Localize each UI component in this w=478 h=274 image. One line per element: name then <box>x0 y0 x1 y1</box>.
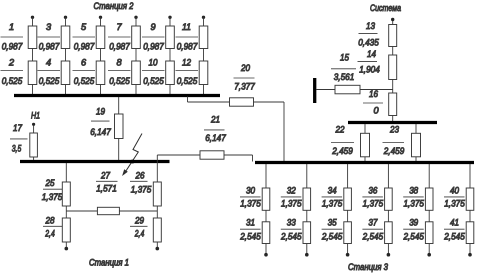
svg-text:29: 29 <box>134 216 144 226</box>
wire Station 3 bus to X30 <box>265 164 267 188</box>
label 37 / 2,545 <box>362 218 384 242</box>
load terminal below X39 <box>427 253 431 257</box>
label 36 / 1,375 <box>362 185 384 208</box>
load terminal below X41 <box>468 253 472 257</box>
wire X16 to middle bus <box>392 116 394 122</box>
wire Station 2 bus to X19 <box>118 97 120 114</box>
wire terminal to X13 <box>392 21 394 25</box>
svg-text:35: 35 <box>328 218 338 228</box>
wire X1 to X2 <box>32 49 34 62</box>
short-circuit fault arrow at Station 1 bus <box>122 134 142 177</box>
load terminal H1 <box>32 123 35 126</box>
wire X35 to terminal <box>347 244 349 254</box>
wire X8 to bus 2 <box>135 85 137 96</box>
svg-text:15: 15 <box>340 53 350 63</box>
svg-text:1,571: 1,571 <box>96 184 117 194</box>
svg-text:2,4: 2,4 <box>45 229 55 239</box>
generator terminal G5 <box>168 16 171 19</box>
reactance 10 <box>166 61 175 85</box>
wire H1 to X17 <box>33 126 35 134</box>
wire X14 to X16 (node with X15) <box>392 80 394 94</box>
svg-text:8: 8 <box>116 58 122 68</box>
wire X26 to X29 <box>156 206 158 218</box>
label 10 / 0,525 <box>142 58 165 87</box>
svg-text:31: 31 <box>246 218 255 228</box>
load terminal below X31 <box>264 253 268 257</box>
bus: vertical busbar (left terminal of X15) <box>313 78 316 103</box>
label 41 / 2,545 <box>443 218 465 242</box>
wire Station 2 bus to X20 <box>187 97 189 103</box>
label 1 / 0,987 <box>1 22 24 52</box>
svg-text:28: 28 <box>45 216 56 226</box>
wire X23 to Station 3 bus <box>415 157 417 162</box>
label 22 / 2,459 <box>331 125 354 157</box>
load terminal below X33 <box>305 253 309 257</box>
svg-text:1,375: 1,375 <box>131 185 152 195</box>
label 16 / 0 <box>363 89 383 116</box>
wire X3 to X4 <box>65 49 67 62</box>
svg-text:3: 3 <box>46 22 52 32</box>
wire X20 to Station 3 bus <box>254 101 285 103</box>
label 15 / 3,561 <box>331 53 356 83</box>
bus: Station 2 busbar <box>14 94 220 97</box>
reactance 36 <box>385 188 393 210</box>
svg-text:1,375: 1,375 <box>363 198 384 208</box>
load terminal below X35 <box>346 253 350 257</box>
svg-text:6,147: 6,147 <box>90 127 111 137</box>
svg-text:20: 20 <box>240 63 251 73</box>
svg-text:2,545: 2,545 <box>362 231 384 241</box>
reactance 3 <box>61 26 70 49</box>
wire X25 to X28 <box>65 206 67 218</box>
reactance 26 <box>153 182 161 206</box>
generator terminal G6 <box>202 16 205 19</box>
reactance 17 <box>30 133 38 157</box>
svg-text:2: 2 <box>8 58 14 68</box>
svg-text:0,987: 0,987 <box>143 42 164 52</box>
wire X36 to X37 <box>387 210 389 222</box>
svg-text:30: 30 <box>246 185 256 195</box>
label 9 / 0,987 <box>142 22 165 52</box>
reactance 31 <box>262 222 270 244</box>
label 28 / 2,4 <box>43 216 63 239</box>
wire X12 to bus 2 <box>203 85 205 96</box>
label 32 / 1,375 <box>281 185 303 208</box>
svg-text:3,5: 3,5 <box>12 144 22 154</box>
wire X33 to terminal <box>306 244 308 254</box>
wire Station 1 bus node to X21 <box>157 154 200 156</box>
system terminal <box>391 18 394 21</box>
svg-text:2,545: 2,545 <box>403 231 425 241</box>
svg-text:40: 40 <box>450 185 460 195</box>
svg-text:39: 39 <box>409 218 418 228</box>
label 13 / 0,435 <box>358 21 379 48</box>
svg-text:5: 5 <box>81 22 87 32</box>
label 17 / 3,5 <box>10 123 28 154</box>
svg-text:0,525: 0,525 <box>2 76 23 86</box>
reactance 14 <box>389 55 397 80</box>
reactance 23 <box>412 133 421 157</box>
reactance 20 <box>230 98 254 106</box>
svg-text:2,545: 2,545 <box>321 231 343 241</box>
reactance 19 <box>115 114 124 139</box>
wire X37 to terminal <box>387 244 389 254</box>
wire X38 to X39 <box>428 210 430 222</box>
reactance 22 <box>361 133 370 157</box>
svg-text:1,375: 1,375 <box>281 198 302 208</box>
wire X7 to X8 <box>135 49 137 62</box>
svg-text:2,459: 2,459 <box>383 146 404 156</box>
svg-text:17: 17 <box>13 123 23 133</box>
reactance 11 <box>199 26 208 49</box>
label 39 / 2,545 <box>403 218 425 242</box>
svg-text:0,987: 0,987 <box>74 42 95 52</box>
label 35 / 2,545 <box>321 218 343 242</box>
wire X34 to X35 <box>347 210 349 222</box>
label 20 / 7,377 <box>234 63 256 92</box>
reactance 35 <box>344 222 352 244</box>
wire Station 3 bus to X36 <box>387 164 389 188</box>
wire X2 to bus 2 <box>32 85 34 96</box>
svg-text:1,375: 1,375 <box>403 198 424 208</box>
reactance 33 <box>303 222 311 244</box>
label 26 / 1,375 <box>130 171 152 195</box>
svg-text:22: 22 <box>335 125 345 135</box>
wire Station 3 bus to X32 <box>306 164 308 188</box>
wire terminal to X1 <box>32 17 34 26</box>
svg-text:32: 32 <box>287 185 296 195</box>
svg-text:1,375: 1,375 <box>240 198 261 208</box>
svg-text:21: 21 <box>210 115 220 125</box>
svg-text:0,525: 0,525 <box>74 76 95 86</box>
wire X9 to X10 <box>169 49 171 62</box>
reactance 38 <box>425 188 433 210</box>
reactance 40 <box>466 188 474 210</box>
wire X31 to terminal <box>265 244 267 254</box>
label 4 / 0,525 <box>38 58 61 87</box>
svg-text:41: 41 <box>450 218 459 228</box>
svg-text:2,4: 2,4 <box>134 229 144 239</box>
svg-text:1,375: 1,375 <box>42 192 63 202</box>
svg-text:6: 6 <box>81 58 87 68</box>
reactance 27 <box>97 207 119 214</box>
svg-text:9: 9 <box>150 22 155 32</box>
wire X39 to terminal <box>428 244 430 254</box>
svg-text:7,377: 7,377 <box>234 82 255 92</box>
svg-text:14: 14 <box>367 49 376 59</box>
fault node on bus <box>131 160 135 164</box>
label 33 / 2,545 <box>280 218 302 242</box>
wire node25-28 to X27 <box>66 210 97 212</box>
svg-text:0,987: 0,987 <box>109 42 130 52</box>
label 21 / 6,147 <box>204 115 227 144</box>
wire Station 1 bus to X25 <box>65 163 67 182</box>
wire terminal to X3 <box>65 17 67 26</box>
label 19 / 6,147 <box>90 107 111 138</box>
svg-text:0,987: 0,987 <box>177 42 198 52</box>
reactance 8 <box>132 61 141 85</box>
wire X19 to Station 1 bus <box>118 139 120 161</box>
reactance 4 <box>61 61 70 85</box>
label 23 / 2,459 <box>383 125 405 157</box>
label 5 / 0,987 <box>73 22 96 52</box>
svg-text:Система: Система <box>370 3 401 13</box>
wire X6 to bus 2 <box>100 85 102 96</box>
label 3 / 0,987 <box>38 22 61 52</box>
generator terminal G4 <box>134 16 137 19</box>
svg-text:2,545: 2,545 <box>280 231 302 241</box>
generator terminal G1 <box>31 16 34 19</box>
wire terminal to X9 <box>169 17 171 26</box>
load terminal below X29 <box>156 247 160 251</box>
label 30 / 1,375 <box>240 185 262 208</box>
reactance 7 <box>132 26 141 49</box>
wire X21 to Station 3 bus <box>224 154 253 156</box>
reactance 6 <box>96 61 105 85</box>
svg-text:Станция 3: Станция 3 <box>348 262 389 272</box>
wire X28 to terminal <box>65 242 67 247</box>
label 8 / 0,525 <box>108 58 131 87</box>
reactance 29 <box>153 218 161 242</box>
svg-text:1,375: 1,375 <box>444 198 465 208</box>
label 27 / 1,571 <box>96 171 118 194</box>
svg-text:0,987: 0,987 <box>39 42 60 52</box>
wire X40 to X41 <box>469 210 471 222</box>
label 6 / 0,525 <box>73 58 96 87</box>
svg-text:34: 34 <box>328 185 337 195</box>
svg-text:2,459: 2,459 <box>331 146 352 156</box>
wire X15 to node X14-X16 <box>360 89 393 91</box>
wire terminal to X7 <box>135 17 137 26</box>
svg-text:0,525: 0,525 <box>177 76 198 86</box>
wire Station 1 bus to X26 <box>156 155 158 182</box>
label 2 / 0,525 <box>1 58 24 87</box>
label 31 / 2,545 <box>239 218 261 242</box>
svg-text:27: 27 <box>100 171 111 181</box>
reactance 34 <box>344 188 352 210</box>
wire X11 to X12 <box>203 49 205 62</box>
label 7 / 0,987 <box>108 22 131 52</box>
wire bus to X15 <box>316 89 335 91</box>
svg-text:12: 12 <box>182 58 191 68</box>
reactance 28 <box>62 218 70 242</box>
label 11 / 0,987 <box>176 22 199 52</box>
reactance 13 <box>389 25 397 47</box>
svg-text:10: 10 <box>149 58 159 68</box>
reactance 2 <box>28 61 37 85</box>
svg-text:7: 7 <box>116 22 122 32</box>
svg-text:16: 16 <box>369 89 379 99</box>
svg-text:Станция 2: Станция 2 <box>94 1 134 11</box>
label 14 / 1,904 <box>358 49 380 75</box>
svg-text:36: 36 <box>368 185 378 195</box>
svg-text:0: 0 <box>373 106 379 116</box>
label 29 / 2,4 <box>130 216 148 239</box>
label 12 / 0,525 <box>176 58 199 87</box>
svg-text:2,545: 2,545 <box>239 231 261 241</box>
wire middle bus to X22 <box>364 124 366 133</box>
generator terminal G2 <box>64 16 67 19</box>
svg-text:4: 4 <box>46 58 51 68</box>
reactance 25 <box>62 182 70 206</box>
wire Station 3 bus to X40 <box>469 164 471 188</box>
svg-text:0,525: 0,525 <box>39 76 60 86</box>
svg-text:0,987: 0,987 <box>2 42 23 52</box>
wire X29 to terminal <box>156 242 158 247</box>
reactance 16 <box>389 93 397 116</box>
label 38 / 1,375 <box>403 185 425 208</box>
svg-text:0,435: 0,435 <box>358 38 379 48</box>
svg-text:33: 33 <box>287 218 297 228</box>
wire X22 to Station 3 bus <box>364 157 366 162</box>
reactance 15 <box>335 85 360 94</box>
reactance 39 <box>425 222 433 244</box>
svg-text:25: 25 <box>45 178 56 188</box>
wire X41 to terminal <box>469 244 471 254</box>
reactance 37 <box>385 222 393 244</box>
svg-text:3,561: 3,561 <box>334 72 355 82</box>
wire terminal to X5 <box>100 17 102 26</box>
svg-text:23: 23 <box>389 125 400 135</box>
bus: middle busbar <box>348 121 437 124</box>
wire middle bus to X23 <box>415 124 417 133</box>
wire Station 3 bus to X38 <box>428 164 430 188</box>
load terminal below X37 <box>387 253 391 257</box>
svg-text:Станция 1: Станция 1 <box>89 258 129 268</box>
svg-text:0,525: 0,525 <box>143 76 164 86</box>
reactance 41 <box>466 222 474 244</box>
svg-text:1,375: 1,375 <box>322 198 343 208</box>
wire X5 to X6 <box>100 49 102 62</box>
svg-text:13: 13 <box>366 21 376 31</box>
svg-text:6,147: 6,147 <box>205 133 226 143</box>
wire X27 to node26-29 <box>119 210 157 212</box>
bus: Station 3 busbar <box>255 161 474 164</box>
reactance 5 <box>96 26 105 49</box>
svg-text:37: 37 <box>368 218 378 228</box>
reactance 32 <box>303 188 311 210</box>
wire X10 to bus 2 <box>169 85 171 96</box>
generator terminal G3 <box>99 16 102 19</box>
svg-text:11: 11 <box>182 22 191 32</box>
svg-text:0,525: 0,525 <box>109 76 130 86</box>
wire X30 to X31 <box>265 210 267 222</box>
wire terminal to X11 <box>203 17 205 26</box>
svg-text:26: 26 <box>135 171 146 181</box>
load terminal below X28 <box>65 247 69 251</box>
wire X4 to bus 2 <box>65 85 67 96</box>
wire X17 to Station 1 bus <box>33 157 35 160</box>
wire Station 3 bus to X34 <box>347 164 349 188</box>
svg-text:1,904: 1,904 <box>359 65 380 75</box>
wire X13 to X14 <box>392 47 394 56</box>
reactance 1 <box>28 26 37 49</box>
label 25 / 1,375 <box>42 178 63 202</box>
reactance 9 <box>166 26 175 49</box>
label 34 / 1,375 <box>322 185 344 208</box>
reactance 21 <box>200 151 224 159</box>
label 40 / 1,375 <box>444 185 466 208</box>
svg-text:1: 1 <box>9 22 14 32</box>
wire X32 to X33 <box>306 210 308 222</box>
svg-text:19: 19 <box>96 107 105 117</box>
svg-text:Н1: Н1 <box>31 111 40 121</box>
svg-text:38: 38 <box>409 185 419 195</box>
bus: Station 1 busbar <box>20 160 170 163</box>
reactance 12 <box>199 61 208 85</box>
reactance 30 <box>262 188 270 210</box>
svg-text:2,545: 2,545 <box>443 231 465 241</box>
